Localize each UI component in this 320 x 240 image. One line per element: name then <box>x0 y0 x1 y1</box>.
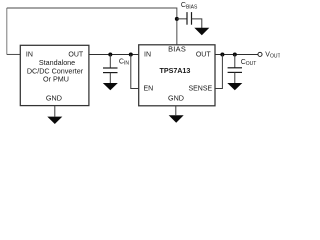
svg-text:BIAS: BIAS <box>168 45 186 54</box>
wire COUT to ground <box>234 72 236 83</box>
wire SENSE tie <box>215 54 222 88</box>
svg-text:IN: IN <box>26 52 33 59</box>
wire input to DC/DC IN <box>7 53 20 55</box>
block U2 TPS7A13 <box>139 45 215 106</box>
ground COUT <box>227 83 242 90</box>
capacitor COUT <box>228 68 242 73</box>
wire OUT rail <box>215 53 258 55</box>
svg-text:OUT: OUT <box>196 52 212 59</box>
block U1 DC/DC converter <box>20 45 89 105</box>
ground U1 <box>47 117 62 124</box>
svg-text:VOUT: VOUT <box>265 51 280 59</box>
wire CBIAS to ground <box>192 19 202 28</box>
svg-text:TPS7A13: TPS7A13 <box>160 66 191 75</box>
ground CBIAS <box>194 28 209 35</box>
node EN junction <box>129 52 133 56</box>
wire EN tie <box>131 54 139 88</box>
node COUT junction <box>233 52 237 56</box>
node SENSE junction <box>220 52 224 56</box>
svg-text:GND: GND <box>168 94 184 103</box>
svg-text:Or PMU: Or PMU <box>43 75 69 84</box>
wire input riser left <box>6 8 8 55</box>
svg-text:GND: GND <box>46 93 62 102</box>
svg-text:EN: EN <box>144 85 154 92</box>
wire CIN to ground <box>109 73 111 84</box>
wire U1 GND pin <box>54 106 56 117</box>
svg-text:IN: IN <box>144 52 151 59</box>
wire COUT riser <box>234 54 236 67</box>
capacitor CBIAS <box>187 12 192 25</box>
wire U2 GND pin <box>175 106 177 115</box>
terminal VOUT <box>258 52 262 56</box>
wire to CBIAS <box>177 18 187 20</box>
svg-text:SENSE: SENSE <box>188 85 212 92</box>
node CIN junction <box>108 52 112 56</box>
wire U1 OUT to U2 IN <box>89 53 139 55</box>
capacitor CIN <box>103 68 118 73</box>
svg-text:CIN: CIN <box>119 59 129 67</box>
svg-text:COUT: COUT <box>241 59 257 67</box>
ground CIN <box>103 83 118 90</box>
wire top rail to BIAS <box>7 8 177 45</box>
node BIAS junction <box>175 17 179 21</box>
ground U2 <box>169 115 184 123</box>
svg-text:CBIAS: CBIAS <box>181 2 198 10</box>
wire CIN riser <box>109 54 111 68</box>
